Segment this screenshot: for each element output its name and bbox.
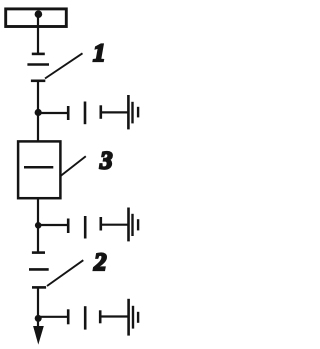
ground B bar 2	[131, 214, 133, 236]
spark gap 2 top electrode	[32, 251, 45, 254]
leader line for label 3	[61, 156, 86, 175]
ground B bar 3	[137, 219, 139, 230]
branch C wire to ground	[101, 315, 128, 317]
cable box inner line	[24, 166, 53, 169]
ground A bar 3	[137, 107, 139, 118]
arrester FC left electrode	[67, 309, 70, 324]
arrester FA left electrode	[67, 106, 70, 120]
node dot on busbar	[35, 10, 43, 18]
svg-text:3: 3	[99, 148, 113, 175]
arrester FB right electrode	[100, 217, 103, 231]
leader line for label 2	[47, 260, 83, 286]
wire busbar to spark gap 1	[37, 14, 39, 54]
spark gap 1 top electrode	[32, 53, 45, 56]
arrester FA right electrode	[100, 105, 103, 119]
ground C bar 2	[132, 306, 134, 329]
branch A wire to ground	[101, 111, 128, 113]
ground C bar 1	[127, 299, 130, 336]
arrester FC middle plate	[84, 306, 87, 329]
arrester FB left electrode	[67, 219, 70, 234]
svg-text:2: 2	[93, 249, 107, 276]
ground B bar 1	[127, 208, 130, 242]
arrester FC right electrode	[99, 310, 102, 323]
spark gap 1 middle plate	[27, 63, 49, 66]
branch B wire to ground	[101, 224, 128, 226]
ground A bar 2	[131, 102, 133, 124]
spark gap 2 middle plate	[29, 268, 49, 271]
branch A wire	[38, 112, 68, 114]
branch C wire	[38, 316, 68, 318]
junction node A	[35, 109, 42, 116]
wire spark gap 2 to output	[37, 287, 39, 328]
wire spark gap 1 to box 3	[37, 81, 39, 141]
spark gap 1 bottom electrode	[31, 80, 45, 83]
busbar box	[6, 9, 67, 27]
arrester FA middle plate	[84, 102, 87, 125]
branch B wire	[38, 224, 68, 226]
svg-text:1: 1	[93, 40, 106, 67]
leader line for label 1	[45, 53, 83, 78]
spark gap 2 bottom electrode	[32, 286, 46, 289]
output arrow	[33, 326, 44, 345]
wire box 3 to spark gap 2	[37, 198, 39, 252]
ground C bar 3	[137, 312, 139, 323]
cable box 3	[18, 141, 60, 198]
junction node C	[35, 315, 42, 322]
ground A bar 1	[127, 95, 130, 129]
arrester FB middle plate	[84, 216, 87, 239]
junction node B	[35, 222, 42, 229]
